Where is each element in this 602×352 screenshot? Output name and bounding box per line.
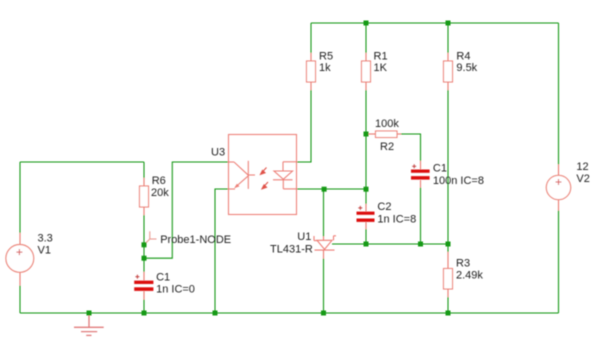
svg-text:1K: 1K bbox=[374, 62, 388, 74]
svg-text:1k: 1k bbox=[319, 62, 331, 74]
svg-text:C1: C1 bbox=[156, 272, 170, 284]
svg-text:C1: C1 bbox=[433, 163, 447, 175]
svg-text:V2: V2 bbox=[576, 173, 589, 185]
svg-text:20k: 20k bbox=[151, 187, 169, 199]
svg-text:9.5k: 9.5k bbox=[456, 62, 477, 74]
svg-text:C2: C2 bbox=[377, 201, 391, 213]
svg-text:2.49k: 2.49k bbox=[456, 270, 483, 282]
svg-text:U3: U3 bbox=[211, 146, 225, 158]
svg-text:3.3: 3.3 bbox=[38, 233, 53, 245]
svg-text:1n IC=8: 1n IC=8 bbox=[377, 213, 416, 225]
svg-text:R2: R2 bbox=[380, 141, 394, 153]
svg-text:R5: R5 bbox=[319, 51, 333, 63]
svg-text:100n IC=8: 100n IC=8 bbox=[433, 175, 484, 187]
svg-text:Probe1-NODE: Probe1-NODE bbox=[160, 234, 231, 246]
svg-text:TL431-R: TL431-R bbox=[270, 243, 313, 255]
svg-text:1n IC=0: 1n IC=0 bbox=[156, 284, 195, 296]
svg-text:R1: R1 bbox=[374, 51, 388, 63]
svg-text:R4: R4 bbox=[456, 51, 470, 63]
svg-text:100k: 100k bbox=[375, 118, 399, 130]
svg-text:R3: R3 bbox=[456, 257, 470, 269]
svg-text:U1: U1 bbox=[297, 231, 311, 243]
svg-text:R6: R6 bbox=[152, 175, 166, 187]
svg-text:12: 12 bbox=[576, 161, 588, 173]
svg-text:V1: V1 bbox=[38, 245, 51, 257]
